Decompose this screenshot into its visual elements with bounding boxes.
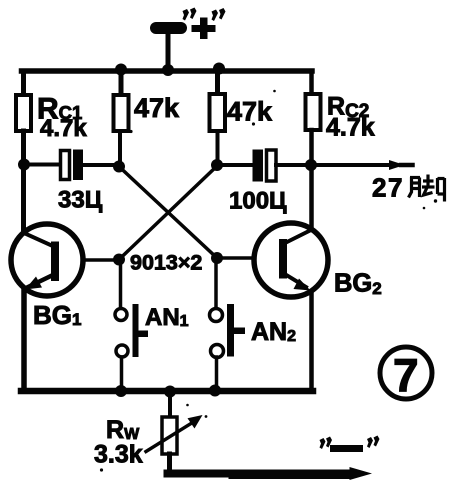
capacitor C1 right wire [83,163,119,167]
node dot AN2 bottom [209,385,221,397]
scan noise specks [100,90,437,472]
arrow RW wiper [146,421,195,452]
switch AN1 [115,304,148,357]
wire R2 top lead [119,71,124,95]
capacitor C2 hollow plate [267,150,277,181]
potentiometer RW [162,417,177,454]
wire BG1 base [58,258,119,262]
wire right rail upper [309,71,314,94]
svg-text:100Ц: 100Ц [229,188,287,215]
svg-text:47k: 47k [134,93,180,123]
wire AN2 bottom lead [215,357,219,391]
wire R2 bottom lead [118,131,122,166]
symbol circled 7 [380,347,432,401]
svg-text:3.3k: 3.3k [94,441,143,469]
wire R3 top lead [215,71,220,94]
svg-text:47k: 47k [227,97,273,127]
svg-text:4.7k: 4.7k [326,114,375,142]
wire + terminal to rail [166,34,171,71]
resistor R3 47k [210,94,226,131]
node dot + rail [162,64,174,76]
node dot AN1 bottom [115,385,127,397]
wire left rail upper [21,71,26,95]
svg-text:9013×2: 9013×2 [130,251,202,275]
capacitor C2 solid plate [253,150,264,182]
wire right rail mid [309,130,314,229]
diagonal cross wire D1 [119,167,217,259]
svg-text:AN1: AN1 [145,304,189,331]
svg-text:BG1: BG1 [33,300,81,330]
resistor RC1 [16,95,31,131]
svg-text:33Ц: 33Ц [58,187,103,214]
resistor R2 47k [114,95,129,131]
node dot R2 top [115,64,127,76]
wire AN2 top lead [214,258,218,308]
node dot BG1 base [113,254,125,266]
svg-text:4.7k: 4.7k [40,115,87,142]
wire negative rail [168,470,351,478]
wire RW bottom lead [167,454,172,472]
capacitor C1 solid plate [73,150,83,181]
wire output arrow dash [401,163,413,168]
node dot C2 left [211,159,223,171]
capacitor C1 hollow plate [61,151,70,180]
svg-text:27: 27 [372,173,404,203]
arrow negative rail [350,467,373,480]
wire R3 bottom lead [216,131,220,165]
node dot C2 right / output [305,159,317,171]
wire BG2 base [217,256,281,260]
wire AN1 bottom lead [120,357,124,391]
transistor BG1 [11,224,83,296]
svg-text:7: 7 [393,349,419,401]
svg-text:AN2: AN2 [251,318,296,346]
label jiao (Chinese: pin) [409,175,445,202]
capacitor C2 right wire [276,163,311,167]
node dot C1 right [113,161,125,173]
switch AN2 [210,304,246,358]
arrow output [389,160,405,170]
wire left rail lower [21,287,27,391]
resistor RC2 [306,94,321,130]
capacitor C1 33u left wire [24,163,61,167]
wire bottom rail [21,388,313,395]
wire left rail mid [21,131,26,233]
wire top rail [22,68,313,74]
label "-" [320,436,380,453]
node dot RW top [164,386,176,398]
wire AN1 top lead [119,259,123,308]
transistor BG2 [254,223,328,297]
node dot C1 left [18,159,30,171]
node dot R3 top [213,63,225,75]
diagonal cross wire D2 [119,166,217,260]
wire output to pin 27 [311,163,392,167]
wire RW top lead [168,391,172,417]
node dot BG2 base [211,252,223,264]
power terminal + bar [150,22,187,34]
wire right rail lower [309,291,314,391]
label "+" [183,8,226,40]
svg-text:BG2: BG2 [334,270,382,299]
capacitor C2 100u left wire [217,163,253,167]
